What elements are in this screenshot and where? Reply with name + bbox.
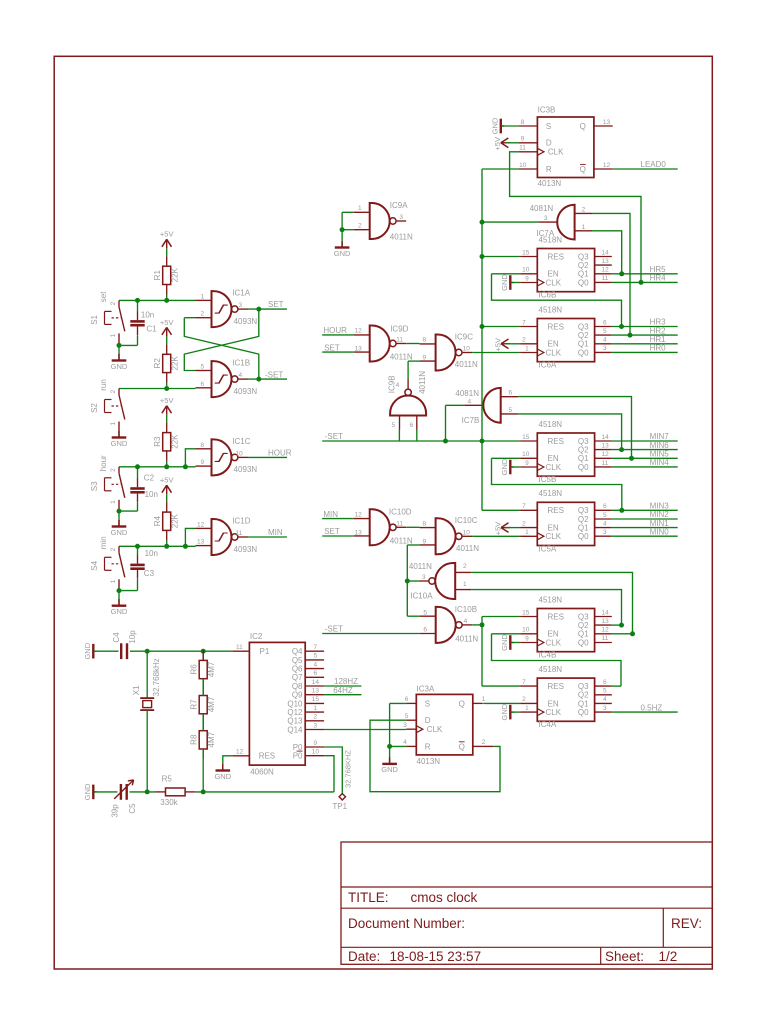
- svg-text:1: 1: [358, 205, 362, 212]
- svg-text:10: 10: [522, 267, 530, 274]
- svg-text:3: 3: [603, 529, 607, 536]
- svg-text:R: R: [425, 742, 431, 751]
- svg-text:MIN0: MIN0: [650, 528, 670, 537]
- svg-text:Q5: Q5: [292, 656, 303, 665]
- svg-text:3: 3: [544, 215, 548, 222]
- svg-text:12: 12: [355, 328, 363, 335]
- svg-text:11: 11: [396, 337, 403, 344]
- svg-text:+5V: +5V: [493, 522, 502, 536]
- svg-text:R5: R5: [162, 775, 173, 784]
- svg-text:4: 4: [468, 398, 472, 405]
- svg-text:MIN6: MIN6: [650, 441, 670, 450]
- svg-text:+5V: +5V: [493, 338, 502, 352]
- svg-text:set: set: [99, 291, 108, 302]
- svg-text:GND: GND: [83, 642, 92, 659]
- svg-text:2: 2: [201, 311, 205, 318]
- svg-text:1: 1: [110, 422, 117, 426]
- svg-text:9: 9: [525, 635, 529, 642]
- svg-text:Q0: Q0: [578, 278, 589, 287]
- svg-text:7: 7: [522, 679, 526, 686]
- svg-text:IC10A: IC10A: [410, 591, 433, 600]
- svg-text:Q6: Q6: [292, 665, 303, 674]
- svg-text:9: 9: [314, 740, 318, 747]
- svg-text:Sheet:: Sheet:: [605, 949, 644, 964]
- svg-text:10: 10: [522, 451, 530, 458]
- svg-text:12: 12: [602, 267, 610, 274]
- svg-text:3: 3: [314, 722, 318, 729]
- svg-text:Q1: Q1: [578, 630, 589, 639]
- svg-text:15: 15: [312, 696, 320, 703]
- svg-text:CLK: CLK: [546, 638, 562, 647]
- svg-text:13: 13: [602, 618, 610, 625]
- svg-text:1: 1: [110, 579, 117, 583]
- svg-text:4011N: 4011N: [455, 634, 478, 643]
- svg-text:IC2: IC2: [250, 632, 263, 641]
- svg-text:12: 12: [355, 512, 363, 519]
- svg-text:IC7B: IC7B: [462, 416, 480, 425]
- svg-text:14: 14: [312, 679, 320, 686]
- svg-text:11: 11: [602, 275, 609, 282]
- svg-text:S1: S1: [90, 314, 99, 324]
- svg-text:13: 13: [603, 119, 611, 126]
- svg-text:22K: 22K: [171, 434, 180, 449]
- svg-text:4013N: 4013N: [417, 757, 441, 766]
- svg-text:6: 6: [314, 670, 318, 677]
- svg-text:2: 2: [582, 207, 586, 214]
- svg-text:hour: hour: [99, 455, 108, 471]
- svg-text:4518N: 4518N: [539, 665, 563, 674]
- svg-text:2: 2: [522, 337, 526, 344]
- svg-text:GND: GND: [490, 117, 499, 134]
- svg-text:GND: GND: [500, 458, 509, 475]
- svg-text:Q10: Q10: [287, 699, 303, 708]
- svg-text:IC4A: IC4A: [539, 720, 557, 729]
- svg-text:Q0: Q0: [578, 532, 589, 541]
- svg-text:4M7: 4M7: [207, 661, 216, 677]
- svg-text:64HZ: 64HZ: [333, 686, 353, 695]
- svg-text:15: 15: [522, 434, 530, 441]
- svg-text:SET: SET: [324, 343, 340, 352]
- svg-text:IC6A: IC6A: [539, 361, 557, 370]
- svg-text:EN: EN: [548, 270, 559, 279]
- svg-text:GND: GND: [111, 362, 128, 371]
- svg-text:R1: R1: [153, 270, 162, 281]
- svg-text:R8: R8: [189, 734, 198, 745]
- svg-text:GND: GND: [83, 783, 92, 800]
- svg-text:22K: 22K: [171, 267, 180, 282]
- svg-text:3: 3: [399, 214, 403, 221]
- svg-text:HR2: HR2: [650, 326, 667, 335]
- svg-text:1/2: 1/2: [659, 949, 678, 964]
- svg-text:6: 6: [603, 679, 607, 686]
- svg-text:5: 5: [603, 328, 607, 335]
- svg-text:13: 13: [197, 539, 205, 546]
- svg-text:4093N: 4093N: [234, 465, 258, 474]
- svg-text:Q2: Q2: [578, 691, 589, 700]
- svg-text:CLK: CLK: [546, 278, 562, 287]
- svg-text:P0: P0: [293, 743, 303, 752]
- svg-text:4518N: 4518N: [539, 305, 563, 314]
- svg-text:10n: 10n: [145, 490, 158, 499]
- svg-text:RES: RES: [548, 506, 564, 515]
- svg-text:1: 1: [525, 345, 529, 352]
- svg-text:C3: C3: [144, 569, 155, 578]
- svg-text:C5: C5: [128, 803, 137, 814]
- svg-text:LEAD0: LEAD0: [641, 160, 667, 169]
- svg-text:2: 2: [463, 563, 467, 570]
- svg-text:HR4: HR4: [650, 274, 667, 283]
- svg-text:8: 8: [521, 119, 525, 126]
- svg-text:2: 2: [110, 301, 117, 305]
- svg-text:REV:: REV:: [671, 916, 702, 931]
- svg-text:TITLE:: TITLE:: [348, 890, 389, 905]
- svg-text:5: 5: [391, 422, 395, 429]
- svg-text:11: 11: [396, 520, 403, 527]
- svg-text:GND: GND: [214, 772, 231, 781]
- svg-text:3: 3: [422, 574, 426, 581]
- svg-text:5: 5: [405, 713, 409, 720]
- svg-text:Date:: Date:: [348, 949, 380, 964]
- svg-text:R6: R6: [189, 664, 198, 675]
- svg-text:MIN4: MIN4: [650, 458, 670, 467]
- svg-text:1: 1: [482, 696, 486, 703]
- svg-text:IC9C: IC9C: [455, 332, 473, 341]
- svg-text:2: 2: [522, 520, 526, 527]
- svg-text:4011N: 4011N: [390, 233, 413, 242]
- svg-text:5: 5: [314, 653, 318, 660]
- svg-text:4: 4: [464, 618, 468, 625]
- svg-text:4M7: 4M7: [207, 731, 216, 747]
- svg-text:IC10C: IC10C: [455, 516, 478, 525]
- svg-text:1: 1: [201, 293, 205, 300]
- svg-text:15: 15: [522, 609, 530, 616]
- svg-text:13: 13: [312, 688, 320, 695]
- svg-text:Q0: Q0: [578, 348, 589, 357]
- svg-text:4081N: 4081N: [530, 204, 554, 213]
- svg-text:4: 4: [239, 372, 243, 379]
- svg-text:3: 3: [239, 302, 243, 309]
- svg-text:run: run: [99, 379, 108, 391]
- svg-text:IC10D: IC10D: [389, 508, 412, 517]
- svg-text:10n: 10n: [141, 310, 154, 319]
- svg-text:9: 9: [423, 355, 427, 362]
- svg-text:10: 10: [463, 530, 471, 537]
- svg-text:Q12: Q12: [287, 708, 303, 717]
- svg-text:+5V: +5V: [160, 476, 174, 485]
- svg-text:C2: C2: [144, 473, 155, 482]
- svg-text:2: 2: [110, 468, 117, 472]
- svg-text:R2: R2: [153, 358, 162, 369]
- svg-text:6: 6: [509, 390, 513, 397]
- svg-text:R7: R7: [189, 699, 198, 710]
- svg-text:3: 3: [403, 722, 407, 729]
- svg-text:12: 12: [602, 451, 610, 458]
- svg-text:18-08-15 23:57: 18-08-15 23:57: [390, 949, 482, 964]
- svg-text:IC1D: IC1D: [232, 517, 250, 526]
- svg-text:RES: RES: [548, 322, 564, 331]
- svg-text:13: 13: [602, 258, 610, 265]
- svg-text:S: S: [546, 122, 551, 131]
- svg-text:10p: 10p: [128, 630, 137, 644]
- svg-text:3: 3: [603, 345, 607, 352]
- svg-text:4093N: 4093N: [234, 545, 258, 554]
- svg-text:IC10B: IC10B: [455, 605, 477, 614]
- svg-text:4011N: 4011N: [409, 562, 432, 571]
- svg-text:IC3A: IC3A: [417, 684, 435, 693]
- svg-text:Q7: Q7: [292, 673, 303, 682]
- svg-text:GND: GND: [111, 439, 128, 448]
- svg-text:X1: X1: [132, 685, 141, 695]
- svg-text:GND: GND: [500, 703, 509, 720]
- svg-text:13: 13: [602, 442, 610, 449]
- svg-text:5: 5: [201, 364, 205, 371]
- svg-text:+5V: +5V: [160, 230, 174, 239]
- svg-text:IC5B: IC5B: [539, 475, 557, 484]
- svg-text:GND: GND: [500, 274, 509, 291]
- svg-text:GND: GND: [111, 607, 128, 616]
- svg-text:CLK: CLK: [548, 148, 564, 157]
- svg-text:GND: GND: [500, 634, 509, 651]
- svg-text:11: 11: [602, 460, 609, 467]
- svg-text:3: 3: [603, 705, 607, 712]
- svg-text:10: 10: [463, 346, 471, 353]
- svg-text:S3: S3: [90, 481, 99, 491]
- svg-text:RES: RES: [548, 252, 564, 261]
- svg-text:Q2: Q2: [578, 261, 589, 270]
- svg-text:EN: EN: [548, 454, 559, 463]
- svg-text:-SET: -SET: [325, 432, 343, 441]
- svg-text:330k: 330k: [160, 798, 178, 807]
- svg-text:Q2: Q2: [578, 621, 589, 630]
- svg-text:D: D: [425, 716, 431, 725]
- svg-text:Q14: Q14: [287, 725, 303, 734]
- svg-text:12: 12: [602, 627, 610, 634]
- svg-text:4: 4: [603, 696, 607, 703]
- svg-text:IC9D: IC9D: [390, 325, 408, 334]
- svg-text:IC3B: IC3B: [538, 105, 556, 114]
- svg-text:MIN: MIN: [268, 528, 283, 537]
- svg-text:4: 4: [396, 382, 400, 389]
- svg-text:S4: S4: [90, 560, 99, 570]
- svg-text:EN: EN: [548, 630, 559, 639]
- svg-text:Q9: Q9: [292, 691, 303, 700]
- svg-text:9: 9: [201, 459, 205, 466]
- svg-text:9: 9: [521, 136, 525, 143]
- svg-text:5: 5: [423, 609, 427, 616]
- svg-text:4011N: 4011N: [390, 353, 413, 362]
- svg-text:P0: P0: [293, 752, 303, 761]
- svg-text:HOUR: HOUR: [323, 326, 347, 335]
- svg-text:CLK: CLK: [546, 708, 562, 717]
- svg-text:EN: EN: [548, 524, 559, 533]
- svg-text:4: 4: [403, 739, 407, 746]
- svg-text:Q: Q: [459, 699, 465, 708]
- svg-text:RES: RES: [548, 437, 564, 446]
- svg-text:5: 5: [603, 512, 607, 519]
- svg-text:R: R: [546, 165, 552, 174]
- svg-text:R3: R3: [153, 436, 162, 447]
- svg-text:1: 1: [582, 224, 586, 231]
- svg-text:+5V: +5V: [160, 318, 174, 327]
- svg-text:Q8: Q8: [292, 682, 303, 691]
- svg-text:1: 1: [110, 333, 117, 337]
- svg-text:CLK: CLK: [546, 463, 562, 472]
- svg-text:2: 2: [522, 696, 526, 703]
- svg-text:Q0: Q0: [578, 638, 589, 647]
- svg-text:4518N: 4518N: [539, 420, 563, 429]
- svg-text:6: 6: [603, 319, 607, 326]
- svg-text:GND: GND: [111, 528, 128, 537]
- svg-text:cmos clock: cmos clock: [411, 890, 478, 905]
- svg-text:6: 6: [405, 696, 409, 703]
- svg-text:IC9A: IC9A: [390, 201, 408, 210]
- svg-text:8: 8: [201, 442, 205, 449]
- svg-text:1: 1: [110, 500, 117, 504]
- svg-text:MIN3: MIN3: [650, 502, 670, 511]
- svg-text:1: 1: [463, 581, 467, 588]
- svg-text:32.768KHZ: 32.768KHZ: [344, 750, 353, 788]
- svg-text:MIN1: MIN1: [650, 519, 670, 528]
- svg-text:9: 9: [423, 538, 427, 545]
- svg-text:0.5HZ: 0.5HZ: [641, 703, 663, 712]
- svg-text:12: 12: [197, 521, 205, 528]
- svg-text:10: 10: [522, 627, 530, 634]
- svg-text:HR0: HR0: [650, 344, 667, 353]
- svg-text:IC1C: IC1C: [232, 437, 250, 446]
- svg-text:RES: RES: [259, 752, 275, 761]
- svg-text:7: 7: [314, 644, 318, 651]
- svg-text:-SET: -SET: [325, 625, 343, 634]
- svg-text:+5V: +5V: [493, 137, 502, 151]
- svg-text:4011N: 4011N: [418, 371, 427, 394]
- svg-text:22K: 22K: [171, 356, 180, 371]
- svg-text:15: 15: [522, 249, 530, 256]
- svg-text:SET: SET: [324, 527, 340, 536]
- svg-text:6: 6: [409, 422, 413, 429]
- svg-text:C4: C4: [112, 632, 121, 643]
- svg-text:GND: GND: [334, 249, 351, 258]
- svg-text:CLK: CLK: [546, 348, 562, 357]
- svg-text:Q3: Q3: [578, 506, 589, 515]
- svg-text:10: 10: [312, 749, 320, 756]
- svg-text:EN: EN: [548, 340, 559, 349]
- svg-text:11: 11: [602, 635, 609, 642]
- svg-text:5: 5: [603, 688, 607, 695]
- svg-text:4518N: 4518N: [539, 235, 563, 244]
- svg-text:13: 13: [355, 346, 363, 353]
- svg-text:2: 2: [314, 714, 318, 721]
- svg-text:RES: RES: [548, 682, 564, 691]
- svg-text:1: 1: [525, 705, 529, 712]
- svg-text:32.768kHz: 32.768kHz: [152, 658, 161, 696]
- svg-text:4518N: 4518N: [539, 595, 563, 604]
- svg-text:12: 12: [603, 162, 611, 169]
- svg-text:IC4B: IC4B: [539, 651, 557, 660]
- svg-text:11: 11: [236, 644, 243, 651]
- svg-text:9: 9: [525, 275, 529, 282]
- svg-text:10n: 10n: [145, 549, 158, 558]
- svg-text:Q1: Q1: [578, 699, 589, 708]
- svg-text:8: 8: [423, 337, 427, 344]
- svg-text:12: 12: [236, 749, 244, 756]
- svg-text:2: 2: [482, 739, 486, 746]
- svg-text:39p: 39p: [110, 804, 119, 818]
- svg-text:4060N: 4060N: [250, 768, 274, 777]
- svg-text:IC1A: IC1A: [232, 289, 250, 298]
- svg-text:Q4: Q4: [292, 647, 303, 656]
- svg-text:S: S: [425, 699, 430, 708]
- svg-text:SET: SET: [268, 300, 284, 309]
- svg-text:-SET: -SET: [265, 370, 283, 379]
- svg-text:4011N: 4011N: [390, 536, 413, 545]
- svg-text:IC1B: IC1B: [232, 359, 250, 368]
- svg-text:2: 2: [110, 547, 117, 551]
- svg-text:+5V: +5V: [160, 396, 174, 405]
- svg-text:8: 8: [423, 520, 427, 527]
- svg-text:4093N: 4093N: [234, 317, 258, 326]
- svg-text:6: 6: [423, 627, 427, 634]
- svg-text:Q2: Q2: [578, 446, 589, 455]
- svg-text:13: 13: [355, 529, 363, 536]
- svg-text:1: 1: [314, 705, 318, 712]
- svg-text:11: 11: [519, 145, 526, 152]
- svg-text:HOUR: HOUR: [268, 449, 292, 458]
- svg-text:Q: Q: [459, 742, 465, 751]
- svg-text:1: 1: [525, 529, 529, 536]
- svg-text:EN: EN: [548, 699, 559, 708]
- svg-text:Q13: Q13: [287, 717, 303, 726]
- svg-text:4: 4: [314, 661, 318, 668]
- svg-text:14: 14: [602, 609, 610, 616]
- svg-text:min: min: [99, 536, 108, 549]
- svg-text:7: 7: [522, 503, 526, 510]
- svg-text:R4: R4: [153, 515, 162, 526]
- svg-text:2: 2: [110, 390, 117, 394]
- svg-text:10: 10: [236, 450, 244, 457]
- svg-text:4081N: 4081N: [455, 389, 479, 398]
- svg-text:C1: C1: [146, 325, 157, 334]
- svg-text:11: 11: [236, 530, 243, 537]
- svg-text:128HZ: 128HZ: [334, 677, 358, 686]
- svg-text:S2: S2: [90, 403, 99, 413]
- svg-text:5: 5: [509, 407, 513, 414]
- svg-text:9: 9: [525, 460, 529, 467]
- svg-text:Q2: Q2: [578, 331, 589, 340]
- svg-text:TP1: TP1: [332, 802, 347, 811]
- svg-text:Q: Q: [580, 165, 586, 174]
- svg-text:4: 4: [603, 520, 607, 527]
- svg-text:Document Number:: Document Number:: [348, 916, 465, 931]
- svg-text:MIN: MIN: [323, 510, 338, 519]
- svg-text:6: 6: [603, 503, 607, 510]
- svg-text:10: 10: [519, 162, 527, 169]
- svg-text:2: 2: [358, 223, 362, 230]
- svg-text:4093N: 4093N: [234, 387, 258, 396]
- svg-text:4011N: 4011N: [455, 360, 478, 369]
- svg-text:GND: GND: [381, 765, 398, 774]
- svg-text:4M7: 4M7: [207, 696, 216, 712]
- svg-text:D: D: [546, 139, 552, 148]
- svg-text:P1: P1: [260, 647, 270, 656]
- svg-text:4013N: 4013N: [538, 179, 562, 188]
- svg-text:14: 14: [602, 434, 610, 441]
- svg-text:4011N: 4011N: [456, 544, 479, 553]
- svg-text:Q0: Q0: [578, 463, 589, 472]
- svg-text:IC6B: IC6B: [539, 291, 557, 300]
- svg-text:Q0: Q0: [578, 708, 589, 717]
- svg-text:Q: Q: [580, 122, 586, 131]
- svg-text:CLK: CLK: [546, 532, 562, 541]
